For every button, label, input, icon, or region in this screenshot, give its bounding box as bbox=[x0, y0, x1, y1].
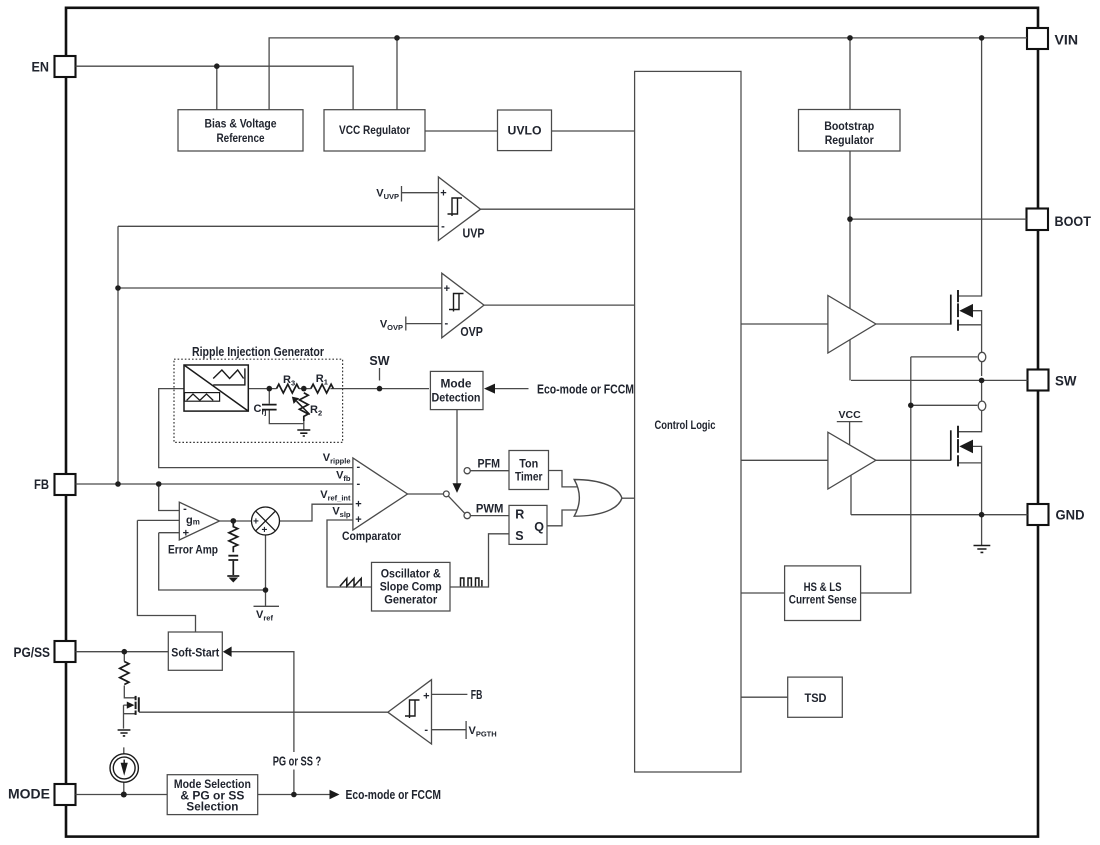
svg-text:Q: Q bbox=[534, 520, 544, 534]
svg-text:Mode Selection: Mode Selection bbox=[174, 779, 251, 791]
svg-text:-: - bbox=[183, 503, 187, 515]
svg-text:HS & LS: HS & LS bbox=[804, 582, 842, 594]
svg-text:Regulator: Regulator bbox=[825, 133, 874, 147]
svg-text:GND: GND bbox=[1056, 507, 1085, 522]
svg-text:Oscillator &: Oscillator & bbox=[381, 566, 441, 580]
svg-text:-: - bbox=[356, 478, 360, 490]
svg-text:+: + bbox=[262, 525, 268, 536]
svg-text:Comparator: Comparator bbox=[342, 529, 401, 543]
svg-text:SW: SW bbox=[369, 354, 389, 368]
svg-text:Slope Comp: Slope Comp bbox=[380, 579, 442, 593]
svg-text:Soft-Start: Soft-Start bbox=[171, 646, 219, 660]
svg-text:PG or SS ?: PG or SS ? bbox=[273, 755, 322, 769]
svg-text:Error Amp: Error Amp bbox=[168, 543, 218, 557]
svg-text:R: R bbox=[515, 508, 524, 522]
svg-text:+: + bbox=[440, 188, 446, 200]
svg-text:Timer: Timer bbox=[515, 469, 543, 483]
svg-text:+: + bbox=[253, 517, 259, 528]
svg-text:BOOT: BOOT bbox=[1055, 214, 1092, 229]
svg-text:FB: FB bbox=[34, 477, 49, 492]
svg-text:+: + bbox=[355, 514, 361, 526]
svg-text:Bootstrap: Bootstrap bbox=[824, 119, 874, 133]
svg-text:UVLO: UVLO bbox=[508, 124, 542, 138]
svg-text:OVP: OVP bbox=[460, 325, 483, 339]
svg-text:& PG or SS: & PG or SS bbox=[180, 790, 244, 802]
svg-text:PWM: PWM bbox=[476, 501, 504, 515]
svg-text:Ton: Ton bbox=[519, 456, 538, 470]
svg-text:Detection: Detection bbox=[432, 393, 481, 405]
svg-text:Reference: Reference bbox=[217, 131, 265, 145]
svg-text:+: + bbox=[423, 690, 429, 702]
svg-text:UVP: UVP bbox=[463, 227, 485, 241]
svg-text:Selection: Selection bbox=[186, 802, 238, 814]
svg-text:-: - bbox=[424, 724, 428, 736]
svg-text:S: S bbox=[515, 529, 523, 543]
svg-text:VCC Regulator: VCC Regulator bbox=[339, 123, 410, 137]
svg-text:PG/SS: PG/SS bbox=[14, 645, 51, 660]
svg-text:VCC: VCC bbox=[839, 409, 862, 421]
svg-text:Control Logic: Control Logic bbox=[655, 418, 716, 432]
svg-text:+: + bbox=[355, 499, 361, 511]
svg-text:FB: FB bbox=[471, 688, 483, 702]
svg-text:Current Sense: Current Sense bbox=[789, 595, 857, 607]
svg-text:+: + bbox=[183, 528, 189, 540]
svg-text:-: - bbox=[441, 221, 445, 233]
svg-text:PFM: PFM bbox=[478, 457, 501, 471]
svg-text:Eco-mode or FCCM: Eco-mode or FCCM bbox=[537, 382, 634, 396]
svg-text:MODE: MODE bbox=[8, 786, 50, 801]
svg-text:Eco-mode or FCCM: Eco-mode or FCCM bbox=[346, 788, 442, 802]
svg-text:VIN: VIN bbox=[1055, 33, 1079, 48]
svg-text:-: - bbox=[444, 318, 448, 330]
svg-text:TSD: TSD bbox=[805, 691, 827, 705]
svg-text:Generator: Generator bbox=[384, 592, 437, 606]
svg-text:EN: EN bbox=[32, 60, 50, 75]
svg-text:Bias & Voltage: Bias & Voltage bbox=[205, 117, 277, 131]
svg-text:+: + bbox=[444, 283, 450, 295]
svg-text:Mode: Mode bbox=[441, 379, 472, 391]
svg-text:Ripple Injection Generator: Ripple Injection Generator bbox=[192, 345, 324, 359]
svg-text:SW: SW bbox=[1055, 373, 1077, 388]
svg-text:-: - bbox=[356, 461, 360, 473]
